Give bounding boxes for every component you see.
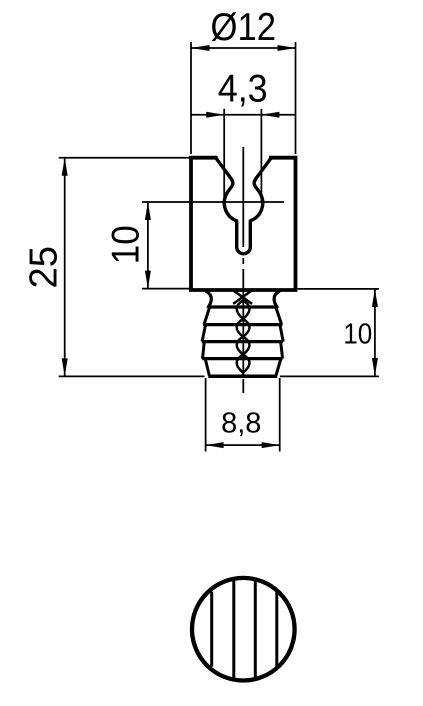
dimension 8,8 (206, 378, 280, 452)
arrowheads 25 (62, 158, 68, 377)
svg-text:25: 25 (22, 246, 65, 289)
svg-text:4,3: 4,3 (218, 68, 268, 111)
slot profile with spring pocket (216, 158, 272, 254)
bottom view circle (192, 578, 295, 681)
svg-text:8,8: 8,8 (221, 408, 261, 440)
dimension Ø12 (191, 42, 296, 154)
stem rib lines (202, 307, 283, 359)
arrowheads Ø12 (192, 45, 296, 51)
dimension 4,3 (192, 109, 296, 203)
stem side edges (202, 307, 283, 376)
body outline (191, 158, 296, 290)
arrowheads 8,8 (206, 442, 280, 448)
arrowheads 10 right (372, 289, 378, 376)
svg-text:10: 10 (343, 319, 372, 351)
bottom view chords (212, 580, 277, 679)
stem neck fillets (206, 292, 279, 307)
arrowheads 10 left (145, 202, 151, 289)
center line (dash-dot) (242, 147, 244, 394)
arrowheads 4,3 (206, 112, 279, 118)
svg-text:Ø12: Ø12 (211, 6, 277, 49)
stem bottom edge (208, 374, 277, 378)
dimension 10 left (slot depth) (142, 202, 284, 289)
thread vesica chain (237, 300, 250, 376)
svg-text:10: 10 (104, 225, 147, 264)
thread cross X (233, 290, 252, 304)
dimension 25 (59, 158, 205, 377)
dimension 10 right (stem length) (280, 289, 379, 377)
